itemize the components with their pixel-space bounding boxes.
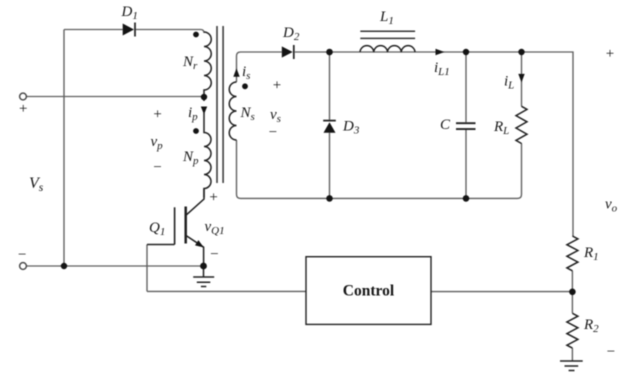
svg-text:D3: D3 <box>342 119 360 137</box>
svg-text:vo: vo <box>605 197 618 215</box>
svg-text:+: + <box>273 78 281 94</box>
svg-text:D1: D1 <box>121 4 138 22</box>
svg-text:L1: L1 <box>379 9 394 27</box>
svg-text:Control: Control <box>343 283 395 300</box>
svg-text:iL1: iL1 <box>434 60 450 78</box>
svg-text:Np: Np <box>182 149 199 167</box>
svg-text:is: is <box>242 64 250 82</box>
svg-text:RL: RL <box>493 119 509 137</box>
svg-text:vs: vs <box>270 107 281 125</box>
svg-text:−: − <box>18 247 26 263</box>
svg-text:C: C <box>440 117 451 133</box>
svg-text:+: + <box>606 46 614 62</box>
svg-text:−: − <box>269 125 277 141</box>
svg-text:D2: D2 <box>282 25 300 43</box>
svg-text:+: + <box>153 106 161 122</box>
svg-text:vp: vp <box>151 134 164 152</box>
svg-text:vQ1: vQ1 <box>205 219 225 237</box>
svg-text:ip: ip <box>188 105 198 123</box>
svg-text:−: − <box>210 246 218 262</box>
svg-text:R1: R1 <box>583 245 599 263</box>
svg-text:−: − <box>153 160 161 176</box>
svg-text:Vs: Vs <box>29 175 44 194</box>
svg-text:Nr: Nr <box>182 54 198 72</box>
svg-text:Ns: Ns <box>240 105 255 123</box>
svg-text:R2: R2 <box>583 317 599 335</box>
svg-text:−: − <box>607 344 615 360</box>
svg-text:Q1: Q1 <box>149 220 165 238</box>
svg-text:+: + <box>19 101 27 117</box>
svg-text:iL: iL <box>504 74 514 92</box>
svg-text:+: + <box>209 189 217 205</box>
